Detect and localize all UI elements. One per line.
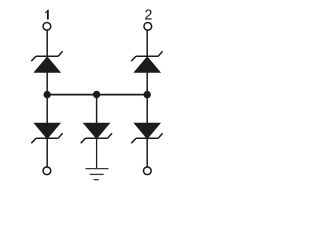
wire pin1 to D1 cathode (46, 31, 48, 57)
terminal bottom right (144, 167, 152, 175)
wire bus to D3 (46, 95, 48, 124)
terminal bottom left (43, 167, 51, 175)
terminal pin 1 (43, 23, 51, 31)
zener diode D2 (cathode up to pin 2) (131, 51, 162, 72)
wire D2 anode to bus (146, 73, 148, 95)
wire pin2 to D2 cathode (146, 31, 148, 57)
pin label 1 (45, 10, 49, 20)
zener diode D5 (anode at bus, cathode down) (131, 123, 162, 143)
zener diode D3 (anode at bus, cathode down) (31, 123, 62, 143)
junction node right (144, 91, 151, 98)
wire common bus (47, 94, 147, 96)
junction node left (44, 91, 51, 98)
wire bus to D5 (146, 95, 148, 124)
terminal pin 2 (144, 23, 152, 31)
zener diode D4 (anode at bus, cathode to ground) (81, 123, 112, 143)
zener diode D1 (cathode up to pin 1) (31, 51, 62, 72)
wire D5 to terminal (146, 139, 148, 168)
ground (86, 169, 109, 180)
junction node middle (93, 91, 100, 98)
wire D3 to terminal (46, 139, 48, 168)
wire bus to D4 (96, 95, 98, 124)
wire D4 to ground (96, 139, 98, 169)
pin label 2 (145, 10, 152, 20)
wire D1 anode to bus (46, 73, 48, 95)
